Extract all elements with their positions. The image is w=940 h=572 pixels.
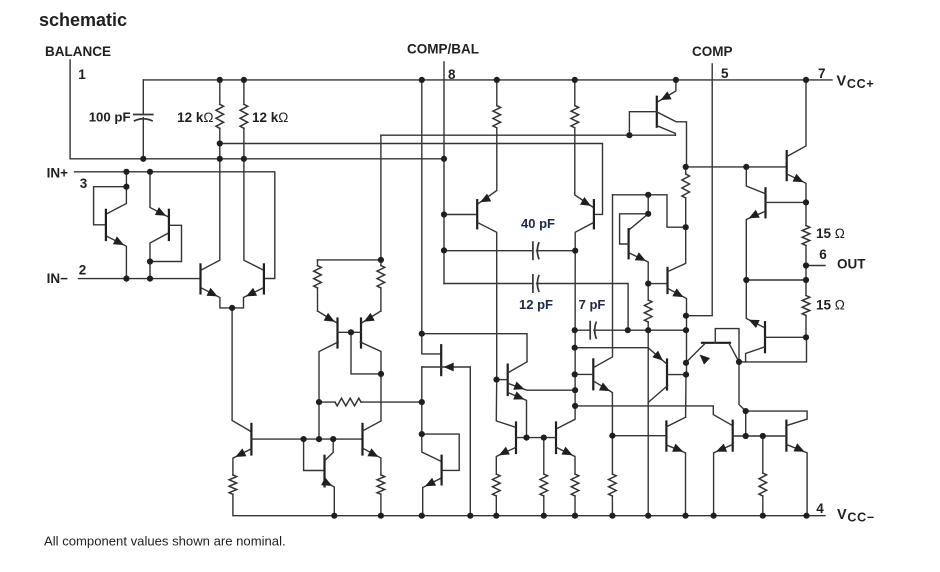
svg-text:100 pF: 100 pF [89,110,131,125]
svg-text:COMP/BAL: COMP/BAL [407,42,479,57]
svg-text:40 pF: 40 pF [521,216,555,231]
svg-text:7 pF: 7 pF [579,297,606,312]
svg-text:OUT: OUT [837,256,866,271]
svg-text:1: 1 [78,67,86,82]
svg-text:IN+: IN+ [47,165,69,180]
svg-text:12 pF: 12 pF [519,297,553,312]
svg-text:VCC+: VCC+ [837,74,875,92]
svg-text:4: 4 [816,501,824,516]
svg-text:15 Ω: 15 Ω [816,226,845,241]
svg-text:15 Ω: 15 Ω [816,298,845,313]
svg-text:3: 3 [80,176,88,191]
svg-text:6: 6 [819,247,827,262]
svg-text:8: 8 [448,67,456,82]
svg-text:5: 5 [721,66,729,81]
svg-text:BALANCE: BALANCE [45,44,111,59]
svg-text:schematic: schematic [39,10,127,30]
svg-text:2: 2 [79,262,87,277]
svg-text:All component values shown are: All component values shown are nominal. [44,533,286,548]
svg-text:IN−: IN− [47,271,69,286]
svg-text:12 kΩ: 12 kΩ [252,110,288,125]
svg-text:VCC−: VCC− [837,507,875,525]
svg-text:12 kΩ: 12 kΩ [177,110,213,125]
svg-text:7: 7 [818,66,826,81]
svg-text:COMP: COMP [692,44,733,59]
